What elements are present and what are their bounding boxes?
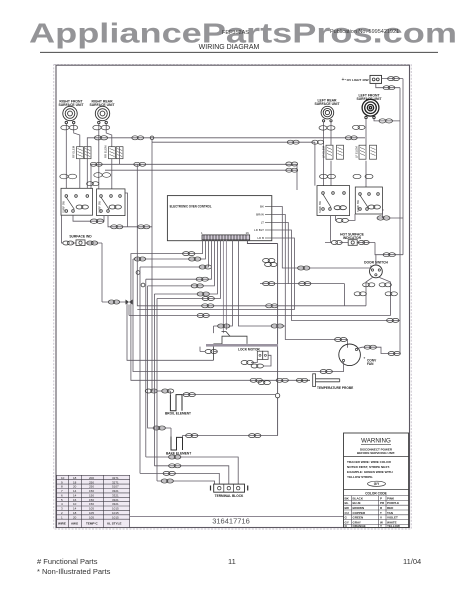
connector pair row SU1 y=176.5 [60,174,77,179]
wire SU3 leads [324,122,331,186]
connector pair right of SW4 [377,216,390,220]
wire oven light to right bus [376,79,403,88]
svg-text:250: 250 [89,485,94,489]
connector oval on L2 left [287,140,299,144]
svg-text:RF ELEM: RF ELEM [72,145,76,158]
connector oval below SW2 [111,225,150,229]
EOC pin labels right [254,205,272,241]
wire bundle V8 broil feed [152,142,170,394]
svg-text:VIOLET: VIOLET [387,516,398,520]
connector oval probe line [250,378,288,384]
header underline [40,51,438,53]
terminal block TB1 [211,484,248,498]
svg-text:SURFACE UNIT: SURFACE UNIT [89,103,115,107]
temperature probe TP1 [296,374,353,390]
connector pair under SU2 [93,125,110,130]
svg-text:+: + [342,77,345,83]
svg-text:UL STYLE: UL STYLE [107,522,121,526]
svg-text:3271: 3271 [112,476,119,480]
wire bundle V10 to lower bus4 [156,299,158,482]
svg-text:SURF SW: SURF SW [97,200,101,213]
convection motor M1 [339,344,377,366]
svg-text:11/04: 11/04 [403,557,421,566]
svg-text:ORANGE: ORANGE [353,524,366,528]
wire EOC pin drop P4 to bus y279.2 [146,240,212,279]
wire top line L4 y=170.2 [105,164,297,190]
svg-text:RED: RED [387,506,394,510]
svg-text:* OV LIGHT 40W: * OV LIGHT 40W [345,78,369,82]
connector oval bus3 [199,265,211,269]
svg-text:G/Y: G/Y [374,482,380,486]
warmer element W1 [77,147,92,159]
node J1 junction [150,136,154,140]
svg-text:105: 105 [89,515,94,519]
svg-text:16: 16 [73,498,77,502]
svg-text:150: 150 [89,489,94,493]
svg-text:316417716: 316417716 [212,517,250,526]
wire bundle V2 probe line [131,254,296,381]
surface unit SU2 right rear [95,106,109,123]
wire surface ind to bowtie [102,301,126,303]
wire lower bus 3 [140,473,219,484]
svg-text:14: 14 [73,507,77,511]
wire EOC pin drop P6 to bus y294 [154,240,217,294]
wire lock line from bowtie bundle [127,302,214,360]
svg-text:1015: 1015 [112,511,119,515]
wire lower bus 2 [154,466,228,484]
svg-text:DOOR SWITCH: DOOR SWITCH [364,261,388,265]
svg-text:TEMP°C: TEMP°C [86,522,99,526]
EOC pin header comb [201,231,250,240]
wire door switch left lead [366,277,373,305]
border frame [56,65,410,527]
wire motor bottom left lead [343,362,345,372]
svg-text:TAN: TAN [387,511,393,515]
svg-text:BLACK: BLACK [353,496,364,500]
connector oval lock left [205,350,217,354]
connector oval R1 [298,266,310,270]
svg-text:14: 14 [73,489,77,493]
wire broil right to junction [182,394,275,396]
wire EOC right R5 [137,238,294,310]
surface switch SW2 [97,189,125,216]
wire SU4 right lead to bus [374,119,400,121]
connector oval on L1 mid [132,136,144,140]
svg-text:1015: 1015 [112,507,119,511]
wire SW3 to SW4 link [335,214,355,220]
connector oval motor right 1 [364,345,376,349]
connector oval bus5 [191,284,203,288]
wire bundle V9 to lower bus2 [153,294,155,466]
connector oval on light wire 2 [383,86,395,90]
connector oval on P11 [271,324,283,328]
connector oval bake right 1 [186,434,198,438]
connector oval bus1 [183,252,195,256]
wire bundle V6 to lower bus1 [145,279,147,457]
svg-text:WARNING: WARNING [361,438,391,445]
wire bake right to long vertical [183,436,278,438]
wire door switch right lead [379,277,390,315]
svg-text:BLUE: BLUE [353,501,361,505]
connector oval on L3 left [90,162,102,166]
connector oval lock bottom 1 [241,361,253,365]
connector oval R4 [387,318,399,322]
svg-text:Y: Y [380,524,382,528]
svg-text:YELLOW STRIPE.: YELLOW STRIPE. [347,475,373,479]
connector pair row SU2 y=175 [94,173,111,178]
wire bundle V3 motor line [133,259,344,372]
connector oval SU4 left [353,125,366,129]
connector ovals door right lead [379,283,397,296]
label SU3 [314,99,340,107]
wire EOC pin drop P2 to bus y259 [133,240,205,259]
wire lower bus 4 [157,481,215,484]
wire EOC pin drop P7 to bus y298.5 [157,240,220,298]
svg-text:LF ELEM: LF ELEM [355,146,359,158]
svg-text:SURFACE UNIT: SURFACE UNIT [356,97,382,101]
wire bundle V4 door line A [137,164,366,305]
wire EOC gray pair to lock motor [223,240,226,333]
wire top line L2 y=142.2 [152,140,315,186]
wire EOC pin drop P11 right oval link [238,240,285,326]
svg-text:105: 105 [89,511,94,515]
wire right bus vertical B x=406.5 [399,88,401,354]
surface switch SW1 [61,188,93,215]
connector ovals door left lead [354,283,375,296]
wire bundle V7 bake feed [148,286,171,437]
border frame outer dotted [54,65,411,529]
svg-text:FEF352AS: FEF352AS [222,30,249,36]
wire EOC pin drop P1 to bus y253.6 [131,240,203,253]
wire EOC right R4 [272,230,400,320]
svg-text:SURFACE UNIT: SURFACE UNIT [58,103,84,107]
connector oval on P10 [218,324,230,328]
connector oval R5 [263,259,277,267]
connector oval on L1 left [94,136,107,140]
wire EOC right R1 to door switch top [272,207,371,269]
svg-text:LR ELEM: LR ELEM [322,145,326,158]
svg-text:YELLOW: YELLOW [387,524,400,528]
connector oval R3 [263,282,311,286]
connector oval hot surface to bus [383,253,395,257]
svg-text:200: 200 [89,476,94,480]
connector oval on L2 right [312,140,324,144]
svg-text:WIRING DIAGRAM: WIRING DIAGRAM [199,44,260,51]
svg-text:# Functional Parts: # Functional Parts [37,557,98,566]
svg-text:11: 11 [228,557,236,566]
door lock motor assembly [206,332,278,361]
wire top line L1 y=137 [87,138,365,189]
svg-text:18: 18 [73,476,77,480]
svg-text:V: V [380,516,382,520]
connector oval on L1 right [345,136,357,140]
door switch DS1 [364,261,388,278]
svg-text:150: 150 [89,502,94,506]
node bowtie junction [126,300,133,305]
connector pair under SU3 [319,126,335,130]
connector oval on light wire 1 [388,77,400,81]
connector pair SU4 right [379,119,393,123]
label SU1 [58,99,84,107]
connector oval on door line B left [197,314,209,318]
warmer element W2 [109,147,124,159]
svg-text:20: 20 [73,515,77,519]
svg-text:20: 20 [73,485,77,489]
wire SU1 leads [66,124,80,189]
label SU4 [356,94,382,102]
svg-text:SURFACE IND: SURFACE IND [69,235,92,239]
surface indicator lamp left [62,215,103,302]
svg-text:BR/W: BR/W [256,213,264,217]
svg-text:TRACER WIRE: WIRE COLOR: TRACER WIRE: WIRE COLOR [347,460,392,464]
connector oval bus6 [197,292,209,296]
wire SW4 right to bus [377,210,403,218]
svg-text:PINK: PINK [387,496,395,500]
wire EOC pin drop P3 to bus y267 [140,240,208,267]
connector oval broil feed vertical [145,389,174,393]
svg-text:3321: 3321 [112,502,119,506]
svg-text:TEMPERATURE PROBE: TEMPERATURE PROBE [317,386,353,390]
svg-text:ELECTRONIC OVEN CONTROL: ELECTRONIC OVEN CONTROL [170,205,212,209]
svg-text:SURF SW: SURF SW [318,200,322,213]
connector oval lock bottom 2 [251,364,263,368]
wire top line L3 y=164.3 [91,147,297,189]
hot surface indicator right [325,216,403,255]
inner bottom strip line [130,516,344,518]
connector oval motor line [320,370,332,374]
connector oval on bus2 vertical [134,257,145,261]
svg-text:105: 105 [89,507,94,511]
svg-text:RR ELEM: RR ELEM [104,145,108,158]
svg-text:COLOR CODE: COLOR CODE [365,492,387,496]
node J2 open junction on long vertical [275,393,279,397]
svg-text:1015: 1015 [112,515,119,519]
connector ovals row right y=176.5 [320,174,374,178]
node N2 open circle [141,283,145,287]
oven light assembly [342,75,382,83]
svg-text:BAKE ELEMENT: BAKE ELEMENT [166,451,191,455]
connector oval bus7 [202,297,214,301]
surface switch SW4 [355,187,382,214]
svg-text:5107: 5107 [112,485,119,489]
svg-text:16: 16 [246,231,250,235]
surface unit SU1 right front [63,106,77,123]
node N1 open circle [136,271,140,275]
svg-text:150: 150 [89,498,94,502]
svg-text:10: 10 [61,476,65,480]
connector pair under SU1 [61,125,78,130]
connector oval bus4 [196,277,208,281]
svg-text:BL: BL [345,501,349,505]
wire EOC pin drop P12 long vertical [247,240,277,435]
connector oval bus2 [189,257,201,261]
svg-text:LD BLT: LD BLT [254,228,264,232]
wire SU4 left lead [365,119,367,187]
svg-text:LD B: LD B [257,236,264,240]
label SU2 [89,99,115,107]
surface unit SU3 left rear [321,106,334,122]
wire gauge table text [58,476,121,526]
connector oval lower bus1 [169,455,181,459]
wire EOC pin drop P10 left oval link [214,240,233,333]
svg-text:Publication No. 5995421921: Publication No. 5995421921 [330,29,399,35]
connector oval on bowtie wire [108,300,119,304]
warmer element W4 [359,145,377,159]
connector oval bake right 2 [249,434,261,438]
surface unit SU4 left front [362,99,379,118]
connector oval on L4 right end [286,168,298,172]
svg-text:SURF SW: SURF SW [62,200,66,213]
svg-text:CU: CU [345,511,349,515]
connector oval on L3 right end [286,162,298,166]
svg-text:3271: 3271 [112,480,119,484]
wire lock motor links [200,347,271,366]
wire bundle V5 to lower bus3 [139,267,141,473]
wire SW1 bottom link [73,215,152,227]
warmer element W3 [326,145,344,159]
svg-text:AWG: AWG [71,522,79,526]
electronic oven control EOC [167,196,271,241]
wire right bus vertical A x=403 [402,79,404,255]
svg-text:BROWN: BROWN [353,506,365,510]
wire EOC right R3 [260,223,345,306]
svg-text:LT: LT [261,221,264,225]
svg-text:*: * [364,356,366,361]
wire EOC right R2 to motor top [272,215,348,348]
svg-text:T: T [380,511,382,515]
connector oval between box tops [87,182,99,186]
svg-text:* Non-Illustrated Parts: * Non-Illustrated Parts [37,567,111,576]
bake element [166,436,191,455]
wire box2 right loop [125,193,128,227]
connector pair below SW1 [90,219,104,223]
connector oval motor right 2 [388,352,400,356]
surface switch SW3 [317,186,350,216]
svg-text:18: 18 [73,480,77,484]
wire door switch top stub [375,255,377,265]
connector oval lower bus2 [169,464,181,468]
color code table [344,492,409,529]
svg-text:WIRE: WIRE [58,522,66,526]
svg-text:BROIL ELEMENT: BROIL ELEMENT [165,412,191,416]
svg-text:GREEN: GREEN [353,516,364,520]
svg-text:PURPLE: PURPLE [387,501,399,505]
svg-text:BEFORE SERVICING UNIT.: BEFORE SERVICING UNIT. [357,451,395,455]
connector oval door line A [202,304,214,308]
connector oval lower bus4 [161,479,173,483]
connector oval on line y308 right [266,304,278,308]
svg-text:EXAMPLE: GREEN WIRE WITH: EXAMPLE: GREEN WIRE WITH [347,470,393,474]
svg-text:BK: BK [260,205,264,209]
wire SU2 leads [99,124,112,189]
warning box [344,433,409,528]
connector oval on L3 mid [134,162,146,166]
svg-text:10: 10 [73,502,77,506]
svg-text:TERMINAL BLOCK: TERMINAL BLOCK [215,494,244,498]
svg-text:3321: 3321 [112,498,119,502]
broil element [165,395,191,416]
wire EOC pin drop P5 to bus y285.9 [148,240,215,286]
wire gauge table [57,475,130,527]
connector oval below SW3 [336,218,348,222]
svg-text:NOTED FIRST, STRIPE NEXT.: NOTED FIRST, STRIPE NEXT. [347,465,390,469]
svg-text:SURF SW: SURF SW [356,199,360,212]
svg-text:250: 250 [89,480,94,484]
connector oval broil right [183,393,195,397]
svg-text:18: 18 [73,511,77,515]
svg-text:FAN: FAN [367,362,374,366]
svg-text:SURFACE UNIT: SURFACE UNIT [314,102,340,106]
svg-text:COPPER: COPPER [353,511,367,515]
connector oval lower bus3 [163,471,175,475]
svg-text:3321: 3321 [112,489,119,493]
svg-text:P: P [380,496,382,500]
wire bundle V1 door line B [129,305,391,316]
connector oval bake feed [153,426,165,430]
wire lower bus 1 [146,457,238,484]
wire motor top to right bus [358,347,401,353]
connector oval R2 [335,338,347,342]
